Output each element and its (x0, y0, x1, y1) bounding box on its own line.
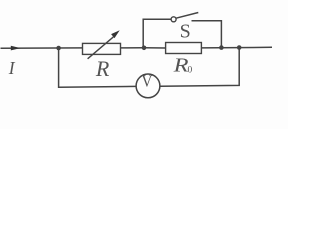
svg-text:V: V (141, 73, 152, 91)
svg-text:R: R (95, 56, 110, 81)
svg-text:0: 0 (188, 65, 193, 75)
svg-text:S: S (180, 20, 191, 42)
svg-text:I: I (8, 58, 16, 78)
